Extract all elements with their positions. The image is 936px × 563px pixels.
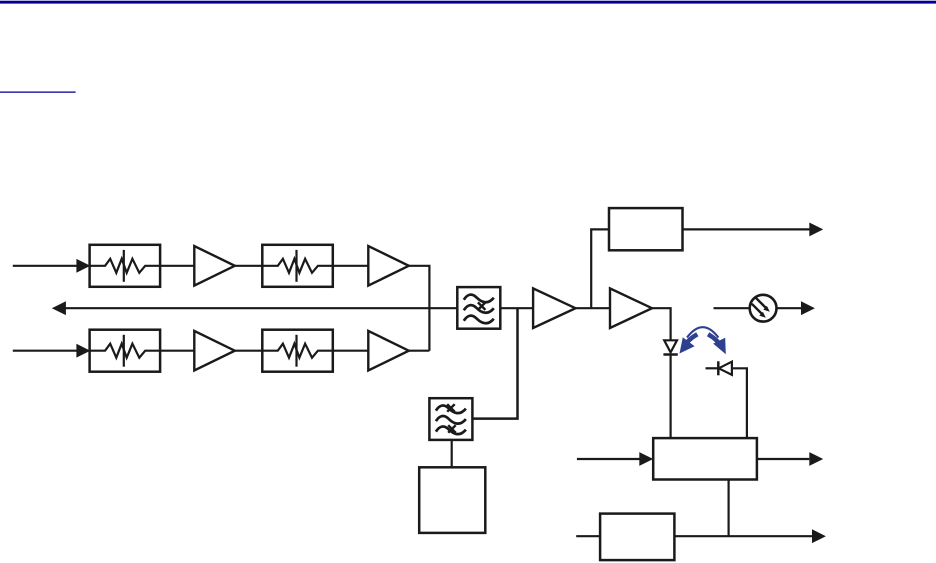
attenuator AT3 <box>90 330 161 372</box>
wire: receive input 1 <box>13 265 78 267</box>
amplifier A5 <box>533 288 575 328</box>
wire: B4 input <box>576 535 600 537</box>
amplifier A6 <box>610 288 652 328</box>
wire <box>409 350 430 352</box>
wire <box>333 350 369 352</box>
wire <box>500 307 533 309</box>
band-pass filter FL2 <box>429 398 472 440</box>
wire <box>669 355 671 439</box>
wire <box>160 265 194 267</box>
attenuator AT1 <box>90 245 161 287</box>
wire <box>333 265 369 267</box>
attenuator AT2 <box>262 245 333 287</box>
wire <box>409 266 430 351</box>
wire: B3 output <box>757 458 809 460</box>
wire <box>235 350 262 352</box>
wire <box>732 368 747 438</box>
block B1 <box>609 208 683 250</box>
wire <box>160 350 194 352</box>
attenuator AT4 <box>262 330 333 372</box>
wire: B1 output <box>683 228 811 230</box>
wire: branch to coupler B1 <box>591 229 609 308</box>
wire: transmit output (left arrow) <box>65 307 457 309</box>
block B4 <box>600 514 674 561</box>
amplifier A2 <box>368 246 409 286</box>
wire <box>727 480 729 537</box>
block B3 (mixer) <box>653 438 757 479</box>
wire: receive input 2 <box>13 350 78 352</box>
amplifier A4 <box>368 331 409 371</box>
block B2 (oscillator) <box>419 467 485 533</box>
diode D1 <box>663 340 677 354</box>
amplifier A1 <box>194 246 235 286</box>
wire: attenuator input stub <box>714 307 750 309</box>
variable attenuator (circle) <box>750 295 777 322</box>
wire: FL2 to main line <box>472 308 517 418</box>
wire: B3 input <box>577 458 641 460</box>
amplifier A3 <box>194 331 235 371</box>
wire <box>652 308 671 340</box>
wire <box>576 307 611 309</box>
tuning arrow (blue curved double arrow) <box>680 327 726 354</box>
wire: B4 output <box>674 535 812 537</box>
wire <box>451 440 453 467</box>
band-stop filter FL1 <box>457 287 500 329</box>
wire <box>235 265 262 267</box>
wire: attenuator output <box>777 307 803 309</box>
diode D2 <box>706 361 732 375</box>
